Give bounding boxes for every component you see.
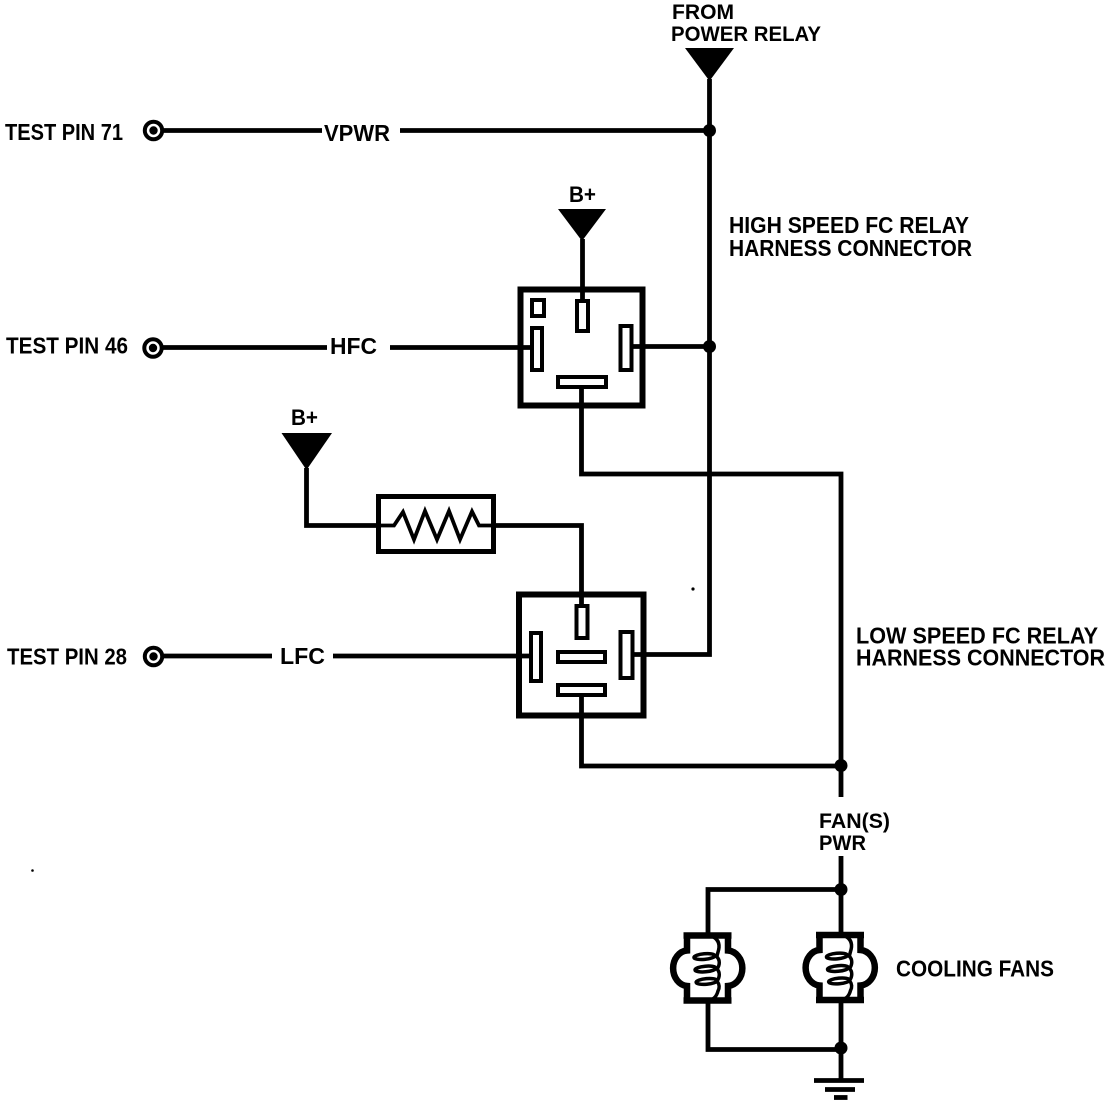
- wire main vertical from power relay to low speed relay: [631, 79, 710, 655]
- svg-text:VPWR: VPWR: [324, 120, 390, 146]
- pin (relay 2 bottom): [558, 685, 605, 695]
- test point TP71: [145, 122, 162, 139]
- wire resistor to relay 2 coil pin: [494, 526, 582, 609]
- svg-text:HARNESS CONNECTOR: HARNESS CONNECTOR: [729, 235, 972, 261]
- svg-text:TEST PIN 46: TEST PIN 46: [6, 333, 128, 359]
- label LOW SPEED FC RELAY HARNESS CONNECTOR: [856, 623, 1105, 671]
- pin (relay 2 right): [621, 632, 633, 678]
- wire relay 1 output to main line: [631, 344, 709, 349]
- pin (relay 2 top): [577, 606, 588, 638]
- svg-text:LFC: LFC: [280, 643, 325, 669]
- wire LFC left segment: [163, 654, 272, 659]
- wire B+ to resistor: [307, 468, 382, 526]
- wire B+ to relay 1 coil pin: [580, 239, 585, 302]
- test point TP28: [145, 648, 162, 665]
- wire VPWR left segment: [163, 128, 322, 133]
- label FROM POWER RELAY: [671, 1, 821, 46]
- pin (relay 2 left): [531, 633, 541, 681]
- relay connector: low speed FC relay: [519, 595, 644, 716]
- wire VPWR right segment: [400, 128, 709, 133]
- relay connector: high speed FC relay: [521, 290, 643, 406]
- wire HFC left segment: [163, 345, 327, 350]
- power arrow B+ (low speed relay): [282, 433, 333, 470]
- pin (relay 2 middle): [558, 652, 605, 662]
- wire LFC right segment: [333, 654, 533, 659]
- svg-text:FAN(S): FAN(S): [819, 810, 890, 833]
- wire relay 2 bottom pin to FAN(S) PWR bus: [582, 693, 840, 766]
- wire left fan to ground bus: [708, 1001, 839, 1050]
- wire bus below junction: [839, 766, 844, 797]
- test point TP46: [144, 339, 161, 356]
- wire right fan to ground: [839, 1000, 844, 1080]
- fan motor 2 (right cooling fan): [806, 932, 875, 1003]
- wire to right fan: [839, 890, 844, 936]
- fan motor 1 (left cooling fan): [673, 933, 742, 1004]
- pin (relay 1 left): [532, 328, 542, 370]
- resistor (boxed zigzag): [376, 497, 497, 552]
- junction fan power bus: [835, 759, 848, 772]
- wire FAN(S) PWR to fans: [839, 856, 844, 891]
- svg-text:B+: B+: [569, 182, 596, 207]
- pin (relay 1 right): [621, 326, 632, 370]
- junction ground bus: [835, 1042, 848, 1055]
- label HIGH SPEED FC RELAY HARNESS CONNECTOR: [729, 212, 972, 261]
- svg-text:POWER RELAY: POWER RELAY: [671, 23, 821, 46]
- svg-text:TEST PIN 28: TEST PIN 28: [7, 644, 127, 670]
- power arrow B+ (high speed relay): [558, 209, 606, 241]
- svg-text:HFC: HFC: [330, 333, 377, 359]
- svg-text:COOLING FANS: COOLING FANS: [896, 956, 1054, 982]
- pin (small square, relay 1 upper-left): [532, 300, 544, 316]
- power arrow from power relay: [685, 48, 734, 81]
- pin (relay 1 top): [577, 301, 588, 331]
- wire to left fan: [708, 890, 839, 937]
- svg-text:B+: B+: [291, 405, 318, 430]
- ground: [814, 1081, 864, 1098]
- pin (relay 1 bottom): [558, 377, 606, 387]
- svg-text:FROM: FROM: [672, 1, 734, 24]
- wire HFC right segment: [390, 345, 532, 350]
- svg-text:HARNESS CONNECTOR: HARNESS CONNECTOR: [856, 645, 1105, 671]
- junction relay 1 output: [703, 340, 716, 353]
- wire relay 1 bottom pin to right bus: [582, 385, 842, 766]
- junction VPWR to main line: [703, 124, 716, 137]
- svg-text:TEST PIN 71: TEST PIN 71: [5, 119, 123, 145]
- junction fans split: [835, 883, 848, 896]
- svg-text:PWR: PWR: [819, 832, 866, 855]
- net label FAN(S) PWR: [819, 810, 890, 855]
